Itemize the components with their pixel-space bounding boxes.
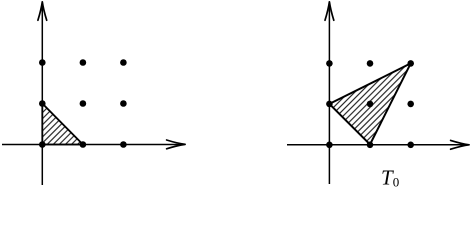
right y-axis	[325, 2, 334, 184]
svg-text:T0: T0	[381, 166, 399, 190]
left lattice dot (0,1)	[39, 100, 46, 107]
right lattice dot (1,0)	[367, 142, 374, 149]
right x-axis	[287, 140, 469, 149]
right lattice dot (1,2)	[367, 60, 374, 67]
right triangle T0 (hatched), vertices (0,1),(2,2),(1,0)	[329, 63, 410, 144]
right lattice dot (0,2)	[326, 60, 333, 67]
left lattice dot (2,2)	[120, 59, 127, 66]
left lattice dot (1,0)	[80, 141, 87, 148]
left lattice dot (2,1)	[120, 100, 127, 107]
left triangle (hatched), vertices (0,0),(1,0),(0,1)	[42, 104, 83, 145]
left y-axis	[38, 2, 47, 185]
left x-axis	[2, 140, 185, 149]
left lattice dot (0,2)	[39, 59, 46, 66]
right lattice dot (0,0) origin	[326, 142, 333, 149]
right lattice dot (2,0)	[407, 142, 414, 149]
left lattice dot (2,0)	[120, 141, 127, 148]
right lattice dot (0,1)	[326, 101, 333, 108]
left lattice dot (1,1)	[80, 100, 87, 107]
left lattice dot (1,2)	[80, 59, 87, 66]
left lattice dot (0,0) origin	[39, 141, 46, 148]
right lattice dot (2,2)	[407, 60, 414, 67]
right lattice dot (2,1)	[407, 101, 414, 108]
right lattice dot (1,1)	[367, 101, 374, 108]
